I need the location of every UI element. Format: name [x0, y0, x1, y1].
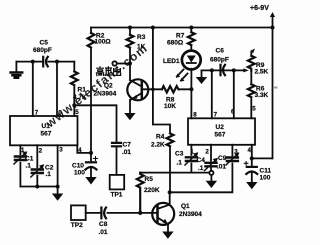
scan speck — [274, 87, 277, 89]
wire C6 net (gnd / pin7 / C6 / pin6 / R9 wiper) — [202, 69, 246, 71]
capacitor C11 electrolytic — [244, 158, 271, 182]
wire Q2 emitter — [129, 100, 131, 113]
svg-text:680Ω: 680Ω — [167, 40, 183, 47]
svg-text:7: 7 — [35, 109, 39, 116]
svg-text:3.3K: 3.3K — [255, 92, 269, 99]
resistor R7 — [188, 32, 195, 45]
node rail/R3 — [128, 26, 132, 30]
svg-text:C10: C10 — [72, 163, 84, 170]
ground Q2 — [124, 113, 135, 120]
svg-text:LED1: LED1 — [163, 58, 180, 65]
svg-text:2: 2 — [205, 148, 209, 155]
node R2/C10/pin4 — [89, 151, 93, 155]
ground U1 bus — [52, 187, 63, 201]
LED LED1 — [163, 51, 201, 82]
wire C8 to Q1 base — [108, 212, 158, 214]
node rail/R7 — [189, 26, 193, 30]
svg-text:+6-9V: +6-9V — [250, 5, 269, 12]
ground Q1 — [162, 232, 173, 239]
wire R7 branch — [190, 28, 192, 52]
svg-text:100Ω: 100Ω — [95, 38, 111, 45]
svg-text:TP2: TP2 — [71, 222, 83, 229]
svg-text:5: 5 — [252, 106, 256, 113]
capacitor C5 — [33, 40, 52, 67]
wire U2 pin7 — [211, 70, 213, 118]
test point TP1 — [110, 175, 125, 198]
ground C11 — [246, 182, 257, 189]
svg-text:www.elecfans.com: www.elecfans.com — [42, 41, 150, 131]
wire ground bus U1 — [20, 186, 57, 188]
svg-text:10K: 10K — [164, 103, 176, 110]
arrow to R9 wiper — [243, 68, 249, 72]
resistor R2 — [88, 33, 95, 47]
node collector/output — [128, 61, 132, 65]
wire LED to U2 pin8 — [190, 69, 192, 119]
IC U2 567 — [188, 106, 256, 156]
svg-text:.01: .01 — [122, 149, 131, 156]
svg-text:.1: .1 — [177, 160, 183, 167]
svg-text:2.2K: 2.2K — [151, 142, 165, 149]
svg-text:100: 100 — [260, 175, 271, 182]
svg-text:.01: .01 — [217, 164, 226, 171]
svg-text:U2: U2 — [216, 124, 225, 131]
node output terminal (open circle) — [112, 61, 116, 65]
resistor R6 — [248, 84, 255, 97]
resistor R5 — [137, 173, 160, 213]
svg-text:TP1: TP1 — [111, 191, 123, 198]
wire R2 branch — [90, 28, 92, 163]
svg-text:C7: C7 — [123, 142, 132, 149]
wire gnd bus under U2 (R5 top to junction) — [140, 172, 210, 174]
wire U2 pin2 / C4 — [210, 145, 212, 181]
wire x153 rail to base crossing to R4 — [153, 28, 170, 193]
wire TP2 to C8 — [86, 212, 100, 214]
node rail/right — [271, 26, 275, 30]
svg-text:100: 100 — [74, 170, 85, 177]
capacitor C10 electrolytic — [72, 157, 98, 178]
svg-text:.1: .1 — [26, 163, 32, 170]
ground C5 (earth bars) — [11, 62, 23, 78]
svg-text:C9: C9 — [218, 155, 227, 162]
wire U1 pin4 to C10 node — [77, 145, 91, 153]
capacitor C4 (trimmer) — [197, 157, 218, 172]
node C5 left / pin7 — [31, 60, 35, 64]
svg-text:R3: R3 — [137, 34, 146, 41]
svg-text:2N3904: 2N3904 — [179, 211, 202, 218]
wire R1 / U1 pin5 — [73, 62, 75, 116]
svg-text:567: 567 — [215, 132, 226, 139]
node Q1 collector / R4 — [168, 190, 172, 194]
wire U1 pin1 / C1 — [19, 145, 21, 186]
wire Q1 emitter — [167, 224, 169, 231]
svg-text:.1: .1 — [198, 165, 204, 172]
capacitor C7 — [112, 142, 131, 156]
wire U2 pin3 / C9 to Q1 collector — [170, 145, 233, 193]
wire top supply rail — [91, 27, 273, 29]
wire U1 pin2 / C2 — [36, 145, 38, 186]
wire U2 pin6 — [233, 70, 235, 118]
svg-text:C1: C1 — [25, 156, 34, 163]
capacitor C2 (trimmer) — [31, 164, 54, 178]
label 高频出 (HF output, drawn glyphs) — [96, 67, 120, 76]
resistor R9 (trimpot) — [248, 49, 269, 76]
svg-text:680pF: 680pF — [210, 57, 229, 64]
svg-text:C3: C3 — [175, 151, 184, 158]
node bus/pin3 — [56, 185, 60, 189]
wire R9-R6 — [250, 71, 252, 85]
node base/x153 — [151, 88, 155, 92]
transistor Q2 2N3904 — [94, 79, 149, 100]
wire U2 pin1 / C3 — [190, 145, 192, 173]
wire U1 pin3 — [57, 145, 59, 186]
capacitor C9 (trimmer) — [217, 152, 239, 170]
wire R6 to U2 pin5 — [250, 99, 252, 118]
svg-text:.01: .01 — [99, 229, 108, 236]
node junction circle — [209, 171, 213, 175]
wire C5 net — [16, 61, 74, 63]
node R1 bottom / C7 branch — [72, 103, 76, 107]
svg-text:2.5K: 2.5K — [255, 69, 269, 76]
node pin6 — [232, 68, 236, 72]
capacitor C1 (trimmer) — [14, 151, 34, 169]
wire Q2 base to R8 — [142, 88, 192, 90]
node R5/C8/base — [138, 211, 142, 215]
svg-text:.1: .1 — [46, 171, 52, 178]
svg-text:3: 3 — [59, 147, 63, 154]
transistor Q1 2N3904 — [152, 192, 202, 225]
node C5 right / pin6 — [55, 60, 59, 64]
svg-text:8: 8 — [193, 112, 197, 119]
wire U1 pin7 — [32, 62, 34, 116]
svg-text:Q1: Q1 — [181, 203, 190, 210]
wire output terminal — [117, 63, 130, 65]
node pin7 — [210, 68, 214, 72]
power +6-9V — [250, 5, 275, 28]
wire U2 pin4 — [252, 145, 273, 159]
svg-text:R4: R4 — [156, 134, 165, 141]
svg-text:6: 6 — [231, 109, 235, 116]
svg-text:C6: C6 — [216, 48, 225, 55]
node pin4/C11 — [250, 156, 254, 160]
wire U1 pin6 — [56, 62, 58, 116]
svg-text:4: 4 — [248, 147, 252, 154]
svg-text:C8: C8 — [99, 221, 108, 228]
svg-text:2: 2 — [39, 148, 43, 155]
svg-text:567: 567 — [41, 131, 52, 138]
wire C7 branch — [74, 105, 116, 175]
svg-text:C4: C4 — [197, 157, 206, 164]
capacitor C3 (trimmer) — [175, 151, 198, 167]
svg-text:R5: R5 — [145, 176, 154, 183]
svg-text:220K: 220K — [144, 187, 160, 194]
resistor R4 — [167, 133, 174, 146]
wire R3 branch — [129, 28, 131, 81]
svg-text:C11: C11 — [260, 168, 272, 175]
svg-text:4: 4 — [78, 147, 82, 154]
svg-text:7: 7 — [214, 112, 218, 119]
capacitor C8 — [99, 208, 108, 236]
resistor R8 — [162, 86, 179, 92]
resistor R3 — [127, 35, 134, 48]
ground C6 net — [196, 70, 207, 84]
node R8/pin8 — [189, 87, 193, 91]
node bus/pin2 — [35, 185, 39, 189]
ground C10 — [85, 177, 96, 185]
IC U1 567 — [10, 109, 82, 155]
wire right supply rail — [272, 28, 274, 159]
resistor R1 — [71, 72, 78, 86]
capacitor C6 — [210, 48, 229, 76]
svg-text:R7: R7 — [176, 33, 185, 40]
node rail/x153 — [151, 26, 155, 30]
svg-text:680pF: 680pF — [33, 47, 52, 54]
ground C4 — [206, 181, 217, 188]
svg-text:C5: C5 — [40, 40, 49, 47]
test point TP2 — [71, 205, 86, 229]
